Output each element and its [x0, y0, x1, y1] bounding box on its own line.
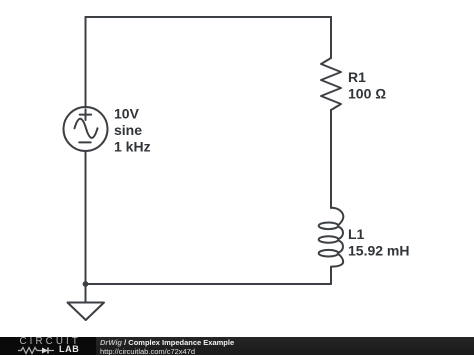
inductor L1 coil	[331, 208, 343, 226]
circuitlab logo box	[0, 337, 96, 355]
resistor R1 zigzag	[321, 58, 341, 110]
svg-text:100 Ω: 100 Ω	[348, 86, 386, 102]
wire right top from top wire to R1	[330, 17, 332, 58]
wire left top from top wire to V1	[85, 17, 87, 107]
V1 minus sign	[79, 141, 91, 143]
wire top from V1 to R1	[86, 16, 332, 18]
svg-text:10V: 10V	[114, 106, 140, 122]
credit text	[100, 339, 234, 356]
svg-text:R1: R1	[348, 69, 366, 85]
voltage source V1 circle	[64, 107, 108, 151]
svg-text:1 kHz: 1 kHz	[114, 138, 151, 154]
svg-text:15.92 mH: 15.92 mH	[348, 242, 409, 258]
V1 plus sign	[80, 109, 92, 120]
V1 sine waveform	[75, 119, 98, 138]
ground stub wire	[85, 284, 87, 303]
svg-text:L1: L1	[348, 226, 365, 242]
node junction dot	[83, 281, 89, 287]
wire from R1 to L1	[330, 110, 332, 208]
logo squiggle resistor+diode and LAB	[18, 346, 88, 355]
svg-text:sine: sine	[114, 122, 142, 138]
wire bottom from node to L1	[86, 283, 332, 285]
footer bar	[0, 337, 474, 355]
logo word CIRCUIT	[20, 336, 81, 347]
ground symbol	[68, 303, 105, 321]
wire left bottom from V1 to node	[85, 151, 87, 284]
